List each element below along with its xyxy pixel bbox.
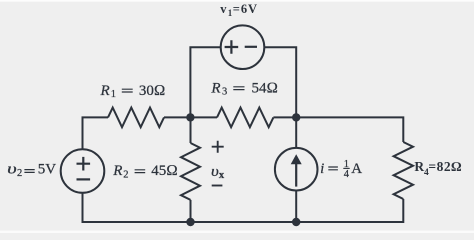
svg-text:1: 1 — [111, 89, 116, 100]
current source arrow — [291, 154, 302, 186]
node C — [292, 113, 300, 121]
label v1=6V — [220, 2, 258, 18]
v2 plus sign — [77, 157, 91, 171]
svg-text:R: R — [100, 83, 110, 99]
node B — [186, 113, 194, 121]
svg-text:5V: 5V — [38, 162, 57, 178]
current source I circle — [275, 148, 318, 191]
resistor R3 zigzag — [217, 108, 273, 128]
label v2 = 5V — [7, 162, 56, 179]
wire: R3 right lead through node C to top-right corner of R4 branch — [273, 117, 403, 142]
svg-text:υ: υ — [7, 162, 17, 178]
node E — [292, 218, 300, 226]
label vx minus sign — [212, 185, 223, 187]
svg-text:R: R — [112, 163, 122, 179]
svg-text:2: 2 — [17, 168, 22, 179]
resistor R2 zigzag — [181, 143, 200, 200]
svg-text:x: x — [219, 170, 225, 181]
resistor R4 zigzag — [394, 142, 413, 199]
svg-text:4: 4 — [344, 169, 350, 180]
wire: v1 right terminal to top-right corner, down to node C — [264, 47, 296, 117]
v1 plus sign — [225, 40, 239, 54]
svg-text:i: i — [320, 161, 324, 177]
label R1 = 30 ohm — [100, 83, 166, 100]
svg-text:2: 2 — [123, 170, 128, 181]
label vx plus sign — [212, 141, 224, 153]
voltage source v2 circle — [61, 149, 105, 193]
voltage source V1 circle — [221, 25, 265, 69]
svg-text:R: R — [414, 159, 424, 174]
label R4=82 ohm — [414, 159, 462, 178]
node D — [186, 218, 194, 226]
v1 minus sign — [245, 46, 257, 48]
svg-text:υ: υ — [211, 164, 219, 180]
svg-text:A: A — [351, 161, 362, 177]
wire: R4 bottom lead to bottom-right corner to node E — [296, 199, 403, 222]
wire: R1 right lead to R3 left lead through node B — [164, 116, 217, 118]
wire: node C down to current source top — [295, 117, 297, 147]
svg-text:v: v — [220, 2, 227, 16]
wire: v2 bottom to bottom-left corner to node D — [83, 193, 191, 222]
svg-text:=6V: =6V — [233, 2, 258, 16]
wire: bottom wire node D to node E — [191, 221, 297, 223]
wire: current source bottom to node E — [295, 191, 297, 223]
svg-text:54Ω: 54Ω — [252, 80, 279, 96]
wire: node B down to R2 top lead — [190, 117, 192, 143]
label R2 = 45 ohm — [112, 163, 178, 180]
svg-text:30Ω: 30Ω — [139, 83, 166, 99]
svg-text:45Ω: 45Ω — [151, 163, 178, 179]
v2 minus sign — [77, 178, 91, 180]
label R3 = 54 ohm — [210, 80, 278, 97]
label i = 1/4 A — [320, 159, 362, 180]
wire: node B up to top-left corner, right to v1 left terminal — [190, 47, 220, 117]
svg-text:R: R — [210, 80, 220, 96]
label vx — [211, 164, 225, 181]
wire: R2 bottom lead to node D — [190, 200, 192, 222]
svg-text:3: 3 — [222, 87, 227, 98]
svg-text:=82Ω: =82Ω — [428, 159, 462, 174]
resistor R1 zigzag — [108, 108, 164, 128]
wire: left corner segment from R1 left lead down to v2 top — [83, 117, 109, 149]
